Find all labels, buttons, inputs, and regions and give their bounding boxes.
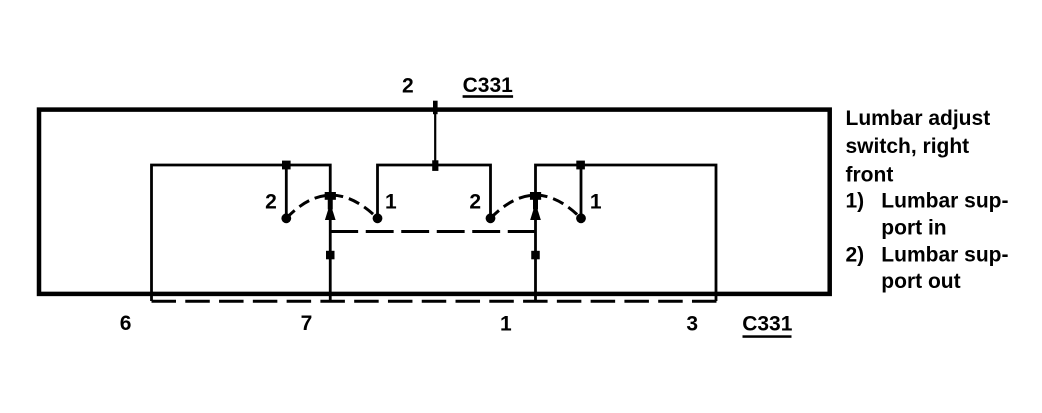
svg-text:Lumbar sup-: Lumbar sup- xyxy=(881,189,1008,212)
svg-text:6: 6 xyxy=(120,312,132,335)
svg-text:2: 2 xyxy=(469,191,481,214)
svg-text:switch, right: switch, right xyxy=(846,135,970,158)
svg-text:7: 7 xyxy=(301,312,313,335)
svg-text:1: 1 xyxy=(500,313,512,336)
svg-text:Lumbar sup-: Lumbar sup- xyxy=(881,244,1008,267)
svg-text:3: 3 xyxy=(686,313,698,336)
svg-text:1: 1 xyxy=(385,191,397,214)
svg-text:port out: port out xyxy=(881,270,960,293)
svg-text:2: 2 xyxy=(402,75,414,98)
svg-text:1: 1 xyxy=(590,191,602,214)
svg-text:Lumbar adjust: Lumbar adjust xyxy=(846,107,991,130)
svg-text:1): 1) xyxy=(846,189,865,212)
svg-text:port in: port in xyxy=(881,216,946,239)
svg-text:front: front xyxy=(846,163,894,186)
svg-text:C331: C331 xyxy=(742,313,793,336)
svg-text:2): 2) xyxy=(846,244,865,267)
svg-text:2: 2 xyxy=(265,191,277,214)
svg-text:C331: C331 xyxy=(463,74,514,97)
